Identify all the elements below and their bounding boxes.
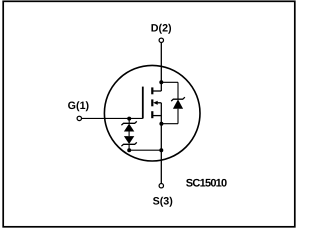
transistor Q1 drain contact arm bbox=[153, 90, 162, 92]
wire body-diode return to source bbox=[161, 123, 178, 125]
transistor Q1 gate electrode bar bbox=[142, 87, 144, 119]
source terminal pin 3 bbox=[159, 184, 163, 188]
junction zener rail left bbox=[127, 148, 131, 152]
svg-text:SC15010: SC15010 bbox=[186, 177, 227, 189]
drain terminal pin 2 bbox=[159, 38, 163, 42]
gate protection zener DZ1 triangle bbox=[124, 124, 134, 132]
body zener diode cathode bar bbox=[171, 97, 185, 101]
transistor Q1 channel bottom segment bbox=[151, 111, 153, 118]
wire zener return rail bbox=[129, 149, 161, 151]
wire source vertical bbox=[160, 103, 162, 183]
transistor envelope circle bbox=[104, 65, 200, 161]
transistor Q1 channel middle segment bbox=[151, 99, 153, 106]
junction source / body-diode bbox=[159, 122, 163, 126]
junction gate / protection zeners bbox=[127, 117, 131, 121]
transistor Q1 body arrow bbox=[153, 101, 158, 105]
wire between zeners bbox=[128, 132, 130, 137]
wire drain to body-diode bbox=[161, 81, 178, 83]
body zener diode triangle bbox=[173, 99, 183, 108]
gate protection zener DZ2 triangle bbox=[124, 136, 134, 144]
wire drain vertical bbox=[160, 43, 162, 91]
transistor Q1 source contact arm bbox=[153, 115, 162, 117]
svg-text:G(1): G(1) bbox=[68, 100, 90, 112]
gate protection zener DZ1 cathode bar bbox=[121, 121, 136, 125]
svg-text:D(2): D(2) bbox=[151, 23, 172, 35]
wire body-diode cathode lead bbox=[177, 82, 179, 99]
wire zener DZ2 to source rail bbox=[128, 144, 130, 150]
wire gate horizontal bbox=[82, 117, 143, 119]
gate terminal pin 1 bbox=[77, 116, 81, 120]
transistor Q1 channel top segment bbox=[151, 87, 153, 94]
wire gate to zener DZ1 bbox=[128, 119, 130, 124]
junction source / zener rail bbox=[159, 148, 163, 152]
gate protection zener DZ2 cathode bar bbox=[121, 142, 136, 146]
svg-text:S(3): S(3) bbox=[153, 196, 174, 208]
wire body-diode anode lead bbox=[177, 109, 179, 124]
transistor Q1 body arm bbox=[158, 102, 162, 104]
junction drain / body-diode branch bbox=[159, 80, 163, 84]
